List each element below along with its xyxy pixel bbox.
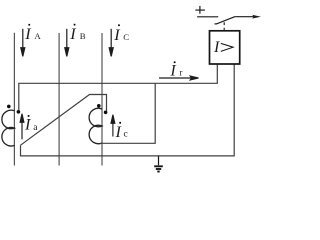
svg-text:B: B <box>80 31 86 41</box>
svg-text:I: I <box>213 39 220 56</box>
svg-text:I: I <box>169 62 176 79</box>
svg-text:c: c <box>124 130 128 140</box>
svg-text:r: r <box>179 67 182 77</box>
svg-text:A: A <box>34 31 41 41</box>
svg-text:C: C <box>123 32 129 42</box>
